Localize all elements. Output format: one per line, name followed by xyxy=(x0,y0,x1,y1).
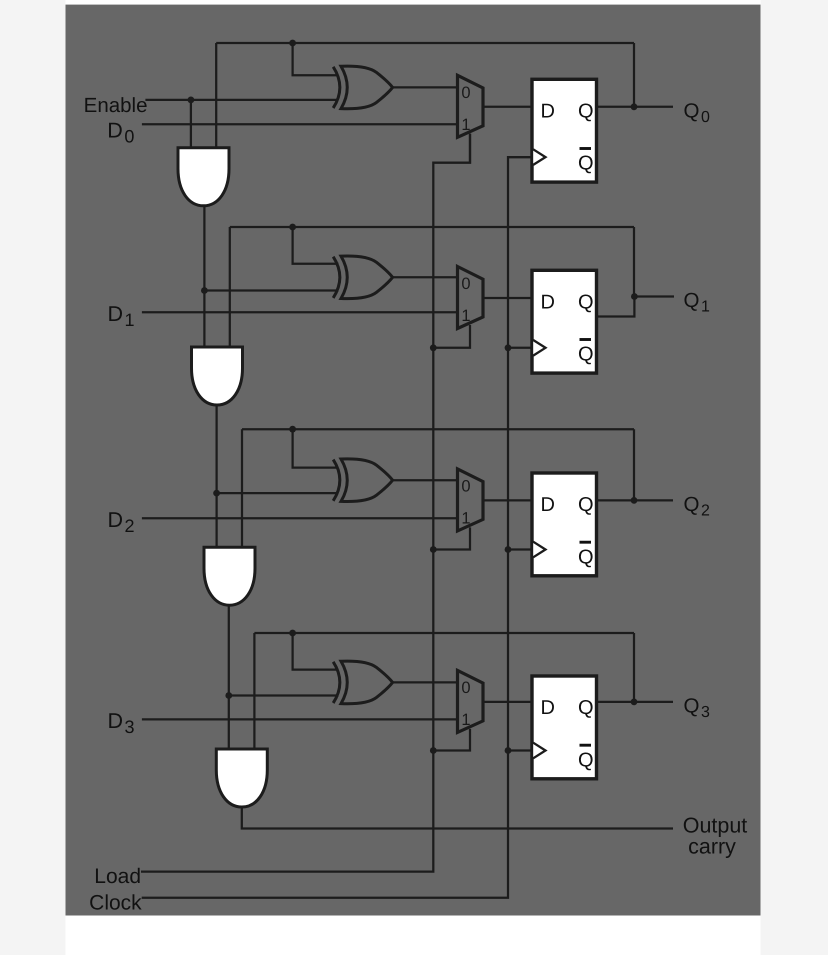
flip-flop FF2 xyxy=(532,270,597,373)
wire clock stub 4 xyxy=(508,749,532,751)
svg-text:Q: Q xyxy=(578,749,594,771)
wire MUX3 select xyxy=(433,527,470,549)
node junction carry C3 xyxy=(225,692,232,699)
and gate AND3 xyxy=(204,547,255,605)
flip-flop FF4 xyxy=(532,676,597,779)
wire MUX4 select xyxy=(433,729,470,751)
svg-text:D: D xyxy=(541,697,555,719)
wire Q0 feedback top xyxy=(216,42,634,44)
wire XOR3 output xyxy=(393,479,458,481)
wire Q0 to XOR input xyxy=(293,43,339,75)
clock pin triangle (FF1) xyxy=(533,149,545,165)
flip-flop FF1 xyxy=(532,79,597,182)
wire carry C3 vertical xyxy=(228,605,230,749)
wire clock stub 1 xyxy=(508,156,532,158)
clock pin triangle (FF2) xyxy=(533,340,545,356)
wire Q2 to AND input xyxy=(241,429,243,547)
node junction Q3 feedback xyxy=(289,630,296,637)
mux MUX4 xyxy=(458,670,484,732)
wire D0 net xyxy=(142,123,458,125)
svg-text:Clock: Clock xyxy=(89,892,142,915)
wire Q1 output xyxy=(597,297,635,317)
wire D1 net xyxy=(142,311,458,313)
svg-text:Q: Q xyxy=(578,101,594,123)
svg-text:Q: Q xyxy=(578,153,594,175)
svg-text:D: D xyxy=(541,292,555,314)
mux MUX3 xyxy=(458,469,484,531)
wire clock stub 2 xyxy=(508,347,532,349)
node junction Load 4 xyxy=(430,747,437,754)
svg-text:1: 1 xyxy=(461,116,470,134)
wire Q3 to AND input xyxy=(253,633,255,749)
svg-text:Load: Load xyxy=(94,865,141,888)
node junction Load 3 xyxy=(430,546,437,553)
wire Q0 to AND input xyxy=(215,43,217,148)
node junction Q0 xyxy=(631,103,638,110)
node junction carry C2 xyxy=(213,490,220,497)
node junction Clock 4 xyxy=(505,747,512,754)
svg-text:carry: carry xyxy=(688,835,736,859)
svg-text:Q: Q xyxy=(578,697,594,719)
wire Load bus xyxy=(141,134,470,872)
svg-text:D: D xyxy=(541,494,555,516)
svg-text:Enable: Enable xyxy=(84,94,148,117)
wire carry C3 to XOR xyxy=(229,694,339,696)
wire Q3 output xyxy=(597,701,674,703)
svg-text:1: 1 xyxy=(461,711,470,729)
and gate AND2 xyxy=(192,347,243,405)
svg-text:1: 1 xyxy=(461,307,470,325)
wire Q0 feedback vertical xyxy=(633,43,635,107)
wire Q0 output xyxy=(597,106,674,108)
wire clock stub 3 xyxy=(508,548,532,550)
wire XOR4 output xyxy=(393,681,458,683)
wire carry C2 to XOR xyxy=(217,492,339,494)
and gate AND1 xyxy=(178,148,229,206)
node junction Q0 feedback xyxy=(289,40,296,47)
xor gate XOR3 xyxy=(333,460,340,501)
wire output carry net xyxy=(242,807,673,829)
wire Q2 to XOR input xyxy=(293,429,339,467)
svg-text:Q: Q xyxy=(578,494,594,516)
wire Q1 feedback top xyxy=(230,226,634,228)
wire Q1 label wire xyxy=(634,295,674,297)
wire XOR1 output xyxy=(393,86,458,88)
wire MUX4 output xyxy=(483,701,532,703)
xor gate XOR4 xyxy=(333,662,340,703)
wire Q2 output xyxy=(597,499,674,501)
wire Q3 feedback vertical xyxy=(633,633,635,702)
wire MUX1 select xyxy=(433,134,470,163)
mux MUX1 xyxy=(458,75,484,137)
wire Q1 to AND input xyxy=(229,227,231,347)
node junction carry C1 xyxy=(201,287,208,294)
svg-text:Q: Q xyxy=(578,344,594,366)
node junction Q1 xyxy=(631,293,638,300)
wire Q3 to XOR input xyxy=(293,633,339,670)
svg-text:0: 0 xyxy=(461,84,470,102)
svg-text:0: 0 xyxy=(461,679,470,697)
wire XOR2 output xyxy=(393,276,458,278)
wire Q3 feedback top xyxy=(254,632,634,634)
node junction Clock 2 xyxy=(505,344,512,351)
xor gate XOR1 xyxy=(333,67,340,108)
node junction Clock 3 xyxy=(505,546,512,553)
wire carry C2 vertical xyxy=(215,405,217,547)
node junction Q2 feedback xyxy=(289,426,296,433)
node junction Load 2 xyxy=(430,344,437,351)
clock pin triangle (FF3) xyxy=(533,542,545,558)
wire Q2 feedback vertical xyxy=(633,429,635,500)
node junction Q3 xyxy=(631,699,638,706)
wire D3 net xyxy=(142,718,458,720)
flip-flop FF3 xyxy=(532,473,597,576)
clock pin triangle (FF4) xyxy=(533,743,545,759)
svg-text:0: 0 xyxy=(461,477,470,495)
wire D2 net xyxy=(142,517,458,519)
wire Enable to AND1 xyxy=(190,100,192,148)
svg-text:1: 1 xyxy=(461,509,470,527)
svg-text:0: 0 xyxy=(461,275,470,293)
wire MUX2 select xyxy=(433,325,470,348)
node junction Q2 xyxy=(631,497,638,504)
wire Q1 feedback vertical xyxy=(633,227,635,297)
wire Q2 feedback top xyxy=(242,428,634,430)
wire Clock bus xyxy=(142,157,532,898)
and gate AND4 xyxy=(216,749,267,807)
node junction Q1 feedback xyxy=(289,224,296,231)
svg-text:D: D xyxy=(541,101,555,123)
wire MUX2 output xyxy=(483,297,532,299)
svg-text:Q: Q xyxy=(578,546,594,568)
xor gate XOR2 xyxy=(333,257,340,298)
wire carry C1 vertical xyxy=(203,206,205,347)
node junction Enable xyxy=(188,97,195,104)
wire MUX1 output xyxy=(483,106,532,108)
wire Q1 to XOR input xyxy=(293,227,339,264)
mux MUX2 xyxy=(458,267,484,329)
wire carry C1 to XOR xyxy=(204,289,338,291)
wire Enable net xyxy=(145,99,338,101)
wire MUX3 output xyxy=(483,499,532,501)
svg-text:Q: Q xyxy=(578,292,594,314)
